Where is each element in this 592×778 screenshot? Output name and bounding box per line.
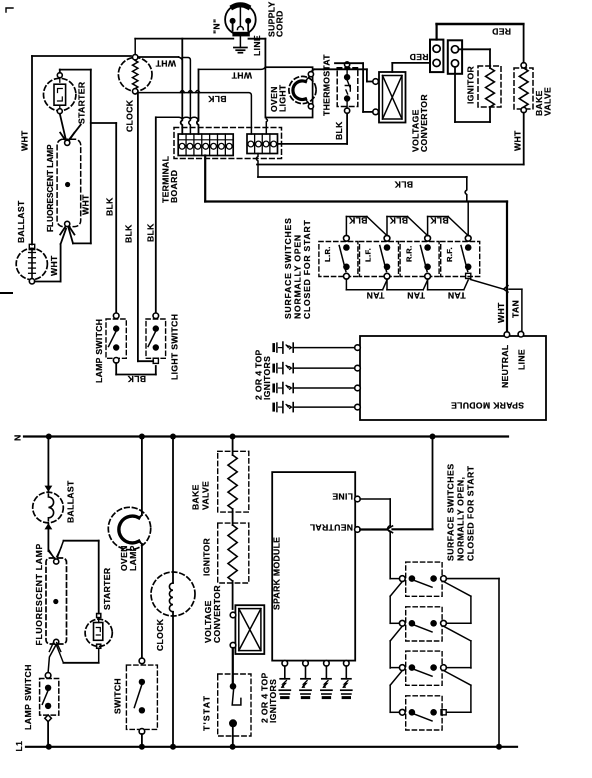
surface switch L.R. blade [339, 246, 346, 272]
wire bake valve bottom WHT [523, 113, 525, 165]
lamp pin arrows [49, 550, 54, 558]
svg-text:FLUORESCENT LAMP: FLUORESCENT LAMP [46, 144, 55, 232]
row 3 contacts [399, 665, 405, 671]
svg-text:IGNITORS: IGNITORS [268, 679, 278, 723]
surface switch bottom TAN chain [345, 279, 347, 290]
ballast bottom terminal [29, 279, 34, 284]
oven light dashed bulb [289, 76, 316, 103]
wire BLK oven light return [266, 118, 267, 135]
surface switch 4 riser to bus [467, 202, 469, 236]
starter body [94, 623, 103, 641]
right chain wires [444, 582, 471, 597]
surface switch L.F. contacts [384, 235, 390, 241]
svg-text:BLK: BLK [105, 197, 115, 216]
clock M1 (pictorial) dashed circle [118, 58, 152, 92]
surface switch R.R. contacts [425, 235, 431, 241]
plug base bar [232, 32, 249, 37]
svg-text:LINE: LINE [517, 349, 527, 370]
wire LINE to switch chain [360, 498, 390, 500]
wire RED volt conv to connector [392, 62, 430, 64]
svg-text:CLOCK: CLOCK [155, 618, 165, 651]
surface switch schematic row 3 dashed box [406, 651, 442, 685]
terminal board left block [178, 134, 233, 156]
clock coil [169, 583, 173, 612]
svg-text:WHT: WHT [496, 302, 506, 323]
svg-text:TAN: TAN [407, 291, 425, 301]
fluorescent lamp (schematic) dashed tube [46, 558, 67, 644]
oven lamp (schematic) wire from N [141, 437, 143, 516]
wire top horizontal to clock [32, 55, 131, 57]
oven lamp dashed circle [108, 507, 150, 549]
wire ballast to fluorescent lamp [47, 524, 49, 551]
ignitor zigzag [486, 68, 495, 107]
ballast (schematic) wire from N [47, 437, 49, 493]
oven switch contacts [139, 658, 145, 664]
wire switch4 to TAN terminal [471, 280, 504, 290]
oven switch (schematic) dashed box [126, 665, 157, 729]
starter S1 (pictorial) dashed circle [44, 78, 76, 110]
ignitor (schematic) dashed box [218, 523, 249, 583]
lamp switch (pictorial) dashed box [106, 319, 126, 358]
row 4 contacts [399, 709, 405, 715]
svg-text:RED: RED [492, 27, 511, 37]
junction dots L1 bus [46, 744, 52, 750]
svg-text:BLK: BLK [334, 121, 344, 140]
svg-text:SPARK MODULE: SPARK MODULE [451, 401, 524, 411]
svg-text:IGNITOR: IGNITOR [202, 537, 212, 576]
wire lamp top to starter [58, 541, 64, 557]
wire right block lower line [258, 176, 467, 178]
wire clock top to WHT net riser [134, 39, 136, 55]
surface switch L.F. blade [380, 246, 387, 272]
wire thermostat bottom BLK to board [346, 113, 348, 144]
svg-text:BLK: BLK [127, 374, 146, 384]
wire bake valve top to RED [523, 24, 525, 63]
surface switch R.F. (pictorial) dashed box [441, 242, 480, 277]
wire row1 to L1 drop [446, 578, 499, 580]
voltage convertor (pictorial) box [379, 72, 406, 123]
wire ballast bottom to lamp bottom pin [35, 281, 61, 283]
wire clock to L1 [172, 612, 174, 747]
spark module LINE terminal [355, 496, 361, 502]
terminal board right block [247, 134, 278, 154]
svg-text:N: N [13, 434, 23, 441]
svg-text:THERMOSTAT: THERMOSTAT [322, 54, 332, 116]
lamp bottom pin [65, 221, 70, 226]
svg-text:TAN: TAN [511, 300, 521, 318]
wire riser 2 (WHT branch) [182, 58, 190, 135]
starter (schematic) dashed circle [85, 619, 112, 646]
light switch blade (pictorial) [148, 331, 156, 347]
svg-text:TAN: TAN [366, 291, 384, 301]
lamp switch blade [42, 690, 48, 704]
wire lamp top pin to BLK tap line [69, 125, 81, 140]
svg-text:CONVERTOR: CONVERTOR [212, 585, 222, 643]
oven light (pictorial) box [265, 67, 312, 117]
wire bake valve to ignitor [232, 509, 234, 525]
svg-text:BLK: BLK [429, 216, 448, 226]
wire riser 1 (WHT) to terminal board [181, 39, 183, 134]
wire WHT board to oven light [199, 67, 266, 69]
N bus line [24, 435, 508, 437]
svg-text:LAMP: LAMP [128, 545, 138, 571]
svg-text:SURFACE SWITCHES: SURFACE SWITCHES [283, 217, 293, 319]
spark module bottom terminals and gaps (schematic) [282, 661, 288, 667]
svg-text:NORMALLY OPEN,: NORMALLY OPEN, [456, 476, 466, 561]
svg-text:L1: L1 [14, 741, 24, 752]
ballast coil ladder [31, 250, 33, 279]
svg-text:WHT: WHT [81, 194, 91, 215]
wire lamp circuit to lamp switch [48, 645, 56, 673]
connector block 2 [448, 40, 462, 74]
svg-text:TAN: TAN [448, 291, 466, 301]
row 4 blade [414, 714, 432, 721]
svg-text:LAMP SWITCH: LAMP SWITCH [23, 664, 33, 730]
svg-text:STARTER: STARTER [77, 81, 87, 124]
svg-text:CLOSED FOR START: CLOSED FOR START [302, 219, 312, 319]
BLK bus to spark module [205, 200, 507, 202]
svg-text:WHT: WHT [49, 255, 59, 276]
wire starter bottom to lamp top pin [60, 114, 66, 139]
light switch (pictorial) dashed box [146, 319, 166, 358]
svg-text:LIGHT SWITCH: LIGHT SWITCH [170, 314, 180, 380]
spark module terminals WHT TAN [504, 332, 510, 338]
wire clock bottom BLK to board [135, 93, 251, 134]
svg-text:WHT: WHT [513, 130, 523, 151]
svg-text:R.F.: R.F. [445, 247, 454, 262]
svg-text:RED: RED [409, 52, 428, 62]
surface switch schematic row 2 dashed box [406, 607, 442, 641]
wire right block to bake-valve line [256, 154, 258, 178]
supply right wire to LINE [249, 38, 266, 40]
surface switch schematic row 1 dashed box [406, 562, 442, 596]
wire block2 to ignitor [459, 48, 490, 50]
wire lamp switch to L1 [47, 722, 49, 747]
wire left block BLK bus drop [204, 156, 206, 202]
plug prongs [230, 18, 236, 24]
svg-text:LAMP SWITCH: LAMP SWITCH [94, 319, 104, 383]
light switch contacts (pictorial) [153, 313, 159, 319]
thermostat contacts [344, 74, 350, 80]
surface switch R.F. contacts [465, 235, 471, 241]
lamp top pin arrows [60, 133, 65, 141]
wire light switch top drop [155, 117, 157, 315]
wire clock drop to light switch circuit [137, 93, 139, 362]
clock terminals [133, 55, 138, 60]
wire N to NEUTRAL [432, 437, 434, 530]
wire tstat to L1 [232, 727, 234, 747]
svg-text:CLOCK: CLOCK [125, 99, 135, 132]
oven light filament horseshoe [293, 81, 306, 100]
wire bus riser to spark module WHT [506, 202, 508, 335]
ground symbol [239, 36, 241, 47]
lamp switch contacts [45, 673, 51, 679]
surface switch R.R. blade [420, 246, 427, 272]
wire loop bottom to lamp pin [73, 242, 91, 244]
svg-text:"N": "N" [212, 19, 222, 34]
lamp switch blade (pictorial) [109, 331, 117, 347]
svg-text:CLOSED FOR START: CLOSED FOR START [466, 465, 476, 561]
clock dashed circle [151, 572, 195, 616]
ballast B1 (pictorial) dashed circle [16, 248, 47, 279]
svg-text:NORMALLY OPEN: NORMALLY OPEN [293, 234, 303, 319]
svg-text:IGNITORS: IGNITORS [262, 356, 272, 400]
starter body [54, 84, 66, 105]
row 2 contacts [399, 620, 405, 626]
surface switch L.F. (pictorial) dashed box [360, 242, 399, 277]
svg-text:NEUTRAL: NEUTRAL [500, 344, 510, 388]
lamp pins [54, 559, 59, 564]
svg-text:CONVERTOR: CONVERTOR [419, 94, 429, 152]
svg-text:T'STAT: T'STAT [202, 695, 212, 731]
page tick marks [6, 8, 13, 12]
ignitor (pictorial) dashed box [478, 66, 501, 107]
bake valve (pictorial) dashed box [514, 68, 533, 109]
lamp bottom pin arrows [60, 227, 65, 235]
oven lamp horseshoe [119, 516, 139, 543]
surface switch top BLK chain [345, 217, 347, 236]
ballast coil [48, 494, 53, 521]
row 2 blade [414, 625, 432, 632]
row 3 blade [414, 669, 432, 676]
tstat (schematic) dashed box [218, 674, 251, 736]
ballast dashed circle [33, 492, 64, 523]
svg-text:SURFACE SWITCHES: SURFACE SWITCHES [446, 463, 456, 561]
svg-text:BLK: BLK [394, 179, 413, 189]
svg-text:R.R.: R.R. [404, 245, 413, 262]
bake valve (schematic) dashed box [218, 451, 249, 512]
hop marks on risers at BLK crossing [180, 90, 200, 92]
surface switch R.F. blade [461, 246, 468, 272]
svg-text:VALVE: VALVE [201, 481, 211, 510]
L1 bus line [26, 746, 517, 748]
wire starter bottom loop to lamp bottom [98, 648, 100, 663]
surface switch R.R. (pictorial) dashed box [400, 242, 439, 277]
svg-text:SPARK MODULE: SPARK MODULE [272, 537, 282, 610]
svg-text:CORD: CORD [275, 10, 285, 37]
wire thermostat top loop [346, 62, 348, 63]
ballast top square terminal [29, 244, 34, 249]
svg-text:BALLAST: BALLAST [16, 200, 26, 243]
lamp center dot [65, 182, 70, 187]
svg-text:BOARD: BOARD [169, 170, 179, 203]
svg-text:VALVE: VALVE [543, 87, 553, 116]
svg-text:WHT: WHT [19, 130, 29, 151]
svg-text:LINE: LINE [332, 491, 353, 501]
svg-text:SWITCH: SWITCH [113, 678, 123, 714]
clock coil zigzag [133, 61, 138, 89]
ignitor zigzag (schematic) [228, 525, 237, 581]
clock (schematic) wire from N [172, 437, 174, 584]
spark module ignitor terminals and gaps [355, 345, 361, 351]
spark module NEUTRAL terminal [355, 527, 361, 533]
terminal board dashed outline [174, 128, 282, 159]
svg-text:BLK: BLK [124, 224, 134, 243]
surface switch L.R. (pictorial) dashed box [319, 242, 358, 277]
tstat contacts [230, 683, 237, 690]
bake valve terminals [521, 63, 526, 68]
wire starter loop: top to right drop [59, 70, 61, 73]
oven switch blade [134, 685, 142, 708]
fluorescent lamp FL1 (pictorial) dashed tube [57, 139, 81, 226]
lamp top pin [65, 140, 70, 145]
wire WHT left drop (supply to ballast) [31, 56, 33, 245]
thermostat terminals [345, 62, 350, 67]
svg-text:LINE: LINE [252, 35, 262, 56]
svg-text:BLK: BLK [348, 216, 367, 226]
wire BLK tap y=123 to lamp switch drop [91, 122, 116, 124]
wires lamp/light switch bottoms [115, 363, 117, 374]
svg-text:BALLAST: BALLAST [66, 480, 76, 523]
svg-text:IGNITOR: IGNITOR [466, 65, 476, 104]
svg-text:BLK: BLK [389, 216, 408, 226]
lamp switch contacts (pictorial) [113, 313, 119, 319]
starter terminals [57, 73, 62, 78]
wire oven light to volt convertor [311, 69, 315, 71]
supply cord plug (pictorial) [225, 4, 256, 35]
bake valve zigzag (schematic) [228, 455, 237, 509]
svg-text:LIGHT: LIGHT [278, 84, 288, 112]
supply plug left wire [135, 38, 233, 40]
bake valve wire from N [232, 437, 234, 456]
svg-text:NEUTRAL: NEUTRAL [309, 522, 353, 532]
volt conv terminals (schematic) [230, 612, 236, 618]
svg-text:L.R.: L.R. [323, 246, 332, 262]
spark module (schematic) box [272, 472, 355, 660]
svg-text:BLK: BLK [146, 223, 156, 242]
spark module (pictorial) box [360, 336, 546, 420]
svg-text:WHT: WHT [231, 70, 252, 80]
wire lamp switch drop BLK [115, 123, 117, 316]
thermostat (pictorial) dashed box [337, 68, 358, 107]
lamp switch (schematic) dashed box [40, 679, 59, 716]
svg-text:WHT: WHT [155, 59, 176, 69]
wire volt conv to tstat [232, 648, 234, 686]
oven light terminals [308, 72, 313, 77]
ballast arrows [45, 486, 51, 491]
bake valve zigzag [519, 68, 528, 107]
voltage convertor (schematic) box [235, 605, 264, 654]
junction dots N bus [46, 434, 52, 440]
svg-text:FLUORESCENT LAMP: FLUORESCENT LAMP [34, 543, 44, 645]
wire ignitor to voltage convertor [232, 581, 234, 609]
surface switch schematic row 4 dashed box [406, 696, 442, 730]
left chain wires [390, 578, 399, 580]
row 1 blade [414, 580, 432, 587]
connector block 1 [430, 40, 443, 73]
wire oven lamp to switch [141, 544, 143, 662]
volt conv terminals [373, 79, 379, 85]
svg-text:STARTER: STARTER [102, 567, 112, 610]
RED top jumper wire [437, 23, 524, 26]
row 1 contacts [399, 576, 405, 582]
surface switch L.R. contacts [344, 235, 350, 241]
svg-text:L.F.: L.F. [364, 248, 373, 262]
svg-text:BLK: BLK [207, 94, 226, 104]
wire oven switch to L1 [141, 734, 143, 747]
svg-text:BAKE: BAKE [191, 484, 201, 510]
